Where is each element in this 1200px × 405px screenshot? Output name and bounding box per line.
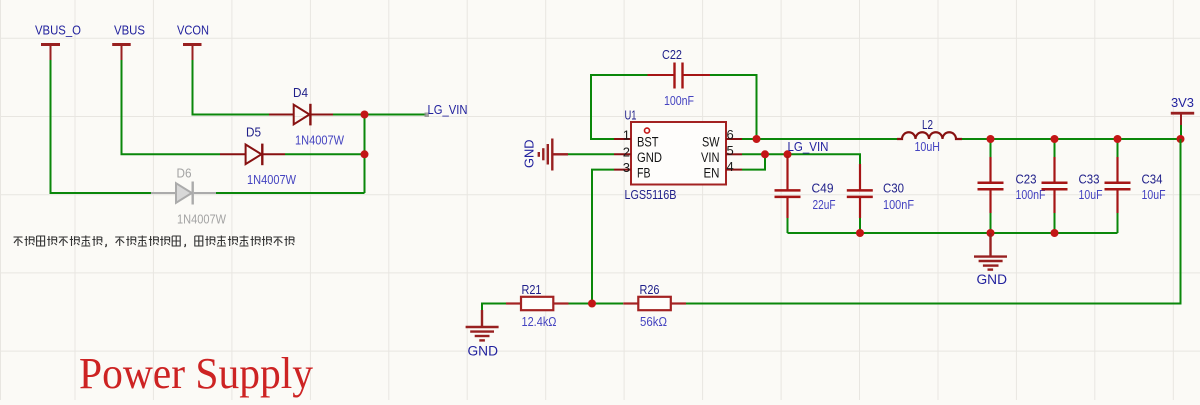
pin 1 stub — [614, 138, 631, 140]
IC U1 LGS5116B — [614, 109, 742, 203]
inductor L2 — [897, 118, 962, 154]
svg-text:1N4007W: 1N4007W — [177, 213, 226, 227]
svg-text:VBUS_O: VBUS_O — [35, 24, 81, 38]
capacitor C34 — [1105, 139, 1166, 233]
svg-text:GND: GND — [977, 272, 1008, 287]
svg-text:3V3: 3V3 — [1171, 96, 1194, 110]
wire R21 to junction — [569, 303, 624, 305]
svg-text:VCON: VCON — [177, 24, 209, 38]
svg-text:1N4007W: 1N4007W — [247, 173, 296, 187]
pin 6 stub — [726, 138, 742, 140]
svg-text:SW: SW — [702, 134, 720, 149]
svg-text:3: 3 — [623, 160, 630, 175]
ground below C23 — [974, 233, 1007, 287]
svg-text:Power Supply: Power Supply — [79, 349, 313, 398]
svg-text:D4: D4 — [293, 86, 308, 100]
svg-text:GND: GND — [637, 150, 662, 165]
svg-text:EN: EN — [704, 165, 720, 180]
junction dot pin4/pin5 — [761, 150, 769, 158]
junction dot D4 row — [361, 111, 369, 119]
power port VCON — [177, 24, 209, 61]
wire 3V3 stub — [1180, 125, 1182, 139]
svg-text:R21: R21 — [522, 283, 542, 297]
ground below R21 — [466, 310, 499, 359]
svg-text:D5: D5 — [246, 126, 261, 140]
svg-text:LG_VIN: LG_VIN — [788, 140, 829, 154]
svg-text:1N4007W: 1N4007W — [295, 134, 344, 148]
svg-text:VIN: VIN — [701, 150, 720, 165]
svg-text:12.4kΩ: 12.4kΩ — [522, 315, 557, 329]
svg-text:1: 1 — [623, 128, 630, 143]
wire C22 right — [710, 75, 757, 139]
capacitor C23 — [978, 139, 1046, 233]
ground left of U1 (rotated) — [523, 139, 569, 171]
svg-text:C23: C23 — [1016, 172, 1037, 186]
resistor R21 — [506, 283, 569, 329]
svg-text:BST: BST — [637, 134, 659, 149]
power port VBUS_O — [35, 24, 81, 61]
wire bottom rail — [788, 232, 1118, 234]
wire pin5 — [742, 154, 860, 164]
power port VBUS — [112, 24, 145, 61]
junction dots C33 — [1051, 135, 1059, 143]
svg-text:GND: GND — [523, 140, 537, 169]
svg-text:5: 5 — [727, 143, 734, 158]
wire VBUS vertical — [122, 60, 221, 154]
capacitor C30 — [847, 164, 915, 233]
svg-text:C34: C34 — [1142, 172, 1163, 186]
diode D5 — [220, 126, 296, 188]
svg-text:100nF: 100nF — [883, 198, 914, 212]
svg-text:FB: FB — [637, 165, 651, 180]
svg-text:4: 4 — [727, 159, 734, 174]
junction dot C34 top — [1114, 135, 1122, 143]
capacitor C22 — [648, 48, 711, 108]
wire VCON vertical — [193, 60, 270, 115]
wire C22 left — [591, 75, 648, 139]
junction dot pin6/C22 — [753, 135, 761, 143]
junction dots C23 — [987, 135, 995, 143]
svg-text:GND: GND — [468, 344, 499, 359]
svg-text:100nF: 100nF — [664, 94, 694, 108]
wire feedback right side — [686, 139, 1181, 304]
node LG_VIN endpoint — [425, 113, 430, 118]
wire VBUS_O vertical — [51, 60, 152, 193]
junction dot 3V3 — [1177, 135, 1185, 143]
junction dot C30 bottom — [856, 229, 864, 237]
svg-text:C33: C33 — [1079, 172, 1100, 186]
svg-text:6: 6 — [727, 127, 734, 142]
svg-text:C22: C22 — [662, 48, 682, 62]
wire pin6 rail — [742, 138, 897, 140]
svg-text:56kΩ: 56kΩ — [640, 315, 667, 329]
svg-text:10uF: 10uF — [1142, 188, 1166, 202]
svg-text:C49: C49 — [812, 182, 834, 196]
svg-text:LG_VIN: LG_VIN — [428, 102, 468, 117]
svg-text:10uH: 10uH — [915, 140, 941, 154]
capacitor C33 — [1042, 139, 1103, 233]
svg-text:R26: R26 — [640, 283, 660, 297]
pin 2 stub — [614, 153, 631, 155]
wire diode output vertical — [364, 115, 366, 194]
svg-text:VBUS: VBUS — [114, 24, 145, 38]
pin 5 stub — [726, 153, 742, 155]
diode D4 — [269, 86, 344, 148]
svg-text:D6: D6 — [177, 167, 192, 181]
power port 3V3 — [1171, 96, 1194, 125]
junction dot D5 row — [361, 150, 369, 158]
pin 4 stub — [726, 169, 742, 171]
svg-text:2: 2 — [623, 144, 630, 159]
wire D6 cathode — [216, 192, 365, 194]
resistor R26 — [623, 283, 686, 329]
wire pin1 — [591, 138, 614, 140]
junction dot C49 top — [784, 150, 792, 158]
svg-text:U1: U1 — [625, 109, 637, 123]
svg-text:10uF: 10uF — [1079, 188, 1103, 202]
wire pin4 — [742, 154, 765, 169]
svg-text:L2: L2 — [922, 118, 933, 132]
pin-1 indicator — [645, 128, 650, 133]
capacitor C49 — [775, 156, 836, 233]
wire D4 cathode to LG_VIN — [333, 114, 426, 116]
wire L2 to 3V3 rail — [962, 138, 1181, 140]
diode D6 (ghosted) — [151, 167, 226, 227]
wire GND to pin2 — [568, 153, 614, 155]
wire D5 cathode — [285, 153, 365, 155]
junction dot FB — [588, 300, 596, 308]
pin 3 stub — [614, 169, 631, 171]
svg-text:C30: C30 — [883, 182, 904, 196]
wire R21 left to gnd corner — [482, 304, 506, 311]
svg-text:22uF: 22uF — [813, 198, 836, 212]
svg-text:LGS5116B: LGS5116B — [625, 188, 677, 202]
svg-text:100nF: 100nF — [1016, 188, 1046, 202]
wire pin3 / FB down — [592, 170, 614, 304]
